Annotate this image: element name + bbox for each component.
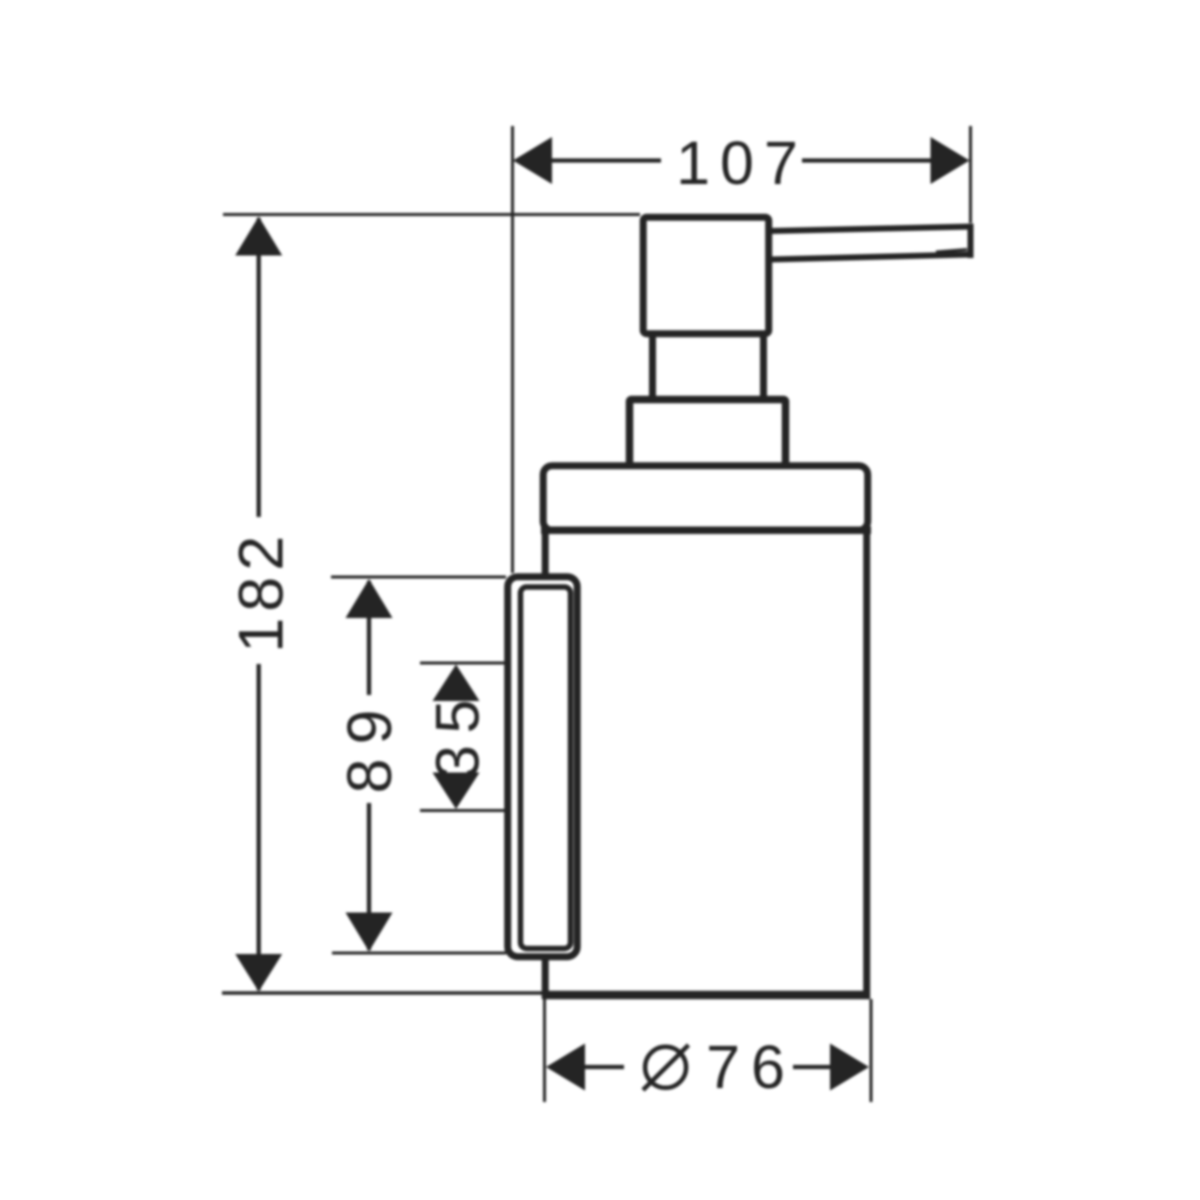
diameter symbol slash (643, 1045, 689, 1090)
dimension 35 arrow bottom (433, 773, 480, 810)
dimension 107 extension line left (511, 126, 514, 573)
dimension 182 arrow bottom (235, 954, 282, 992)
dimension 89 extension line bottom (332, 952, 506, 955)
dimension 182 extension line top (223, 213, 640, 216)
spout right cap (968, 224, 974, 258)
dimension 182 line bottom segment (257, 664, 261, 990)
spout top edge (770, 227, 974, 232)
svg-text:76: 76 (706, 1033, 796, 1101)
dimension 89 arrow bottom (346, 913, 393, 952)
dimension 107 extension line right (969, 126, 972, 223)
dimension 89 arrow top (346, 579, 393, 618)
pump head (643, 217, 769, 334)
dimension 76 extension line left (543, 999, 546, 1102)
dimension 182 line top segment (257, 218, 261, 517)
dimension 35 extension line top (420, 662, 506, 665)
svg-text:182: 182 (226, 530, 296, 653)
wall holder outer (508, 577, 578, 957)
dimension 76 line right segment (793, 1065, 831, 1069)
dimension 107 arrow right (931, 137, 970, 184)
svg-text:35: 35 (424, 688, 492, 779)
dimension 76 line left segment (584, 1065, 624, 1069)
dimension 107 line left segment (550, 158, 661, 162)
dimension 35 arrow top (433, 665, 480, 702)
dimension 89 extension line top (331, 576, 506, 579)
dimension 76 arrow right (830, 1044, 869, 1091)
spout inner tip line (936, 250, 967, 253)
pump neck (653, 330, 764, 400)
dimension 107 line right segment (802, 158, 934, 162)
bottle flange seam line (541, 526, 871, 534)
bottle body (545, 530, 867, 995)
dispenser body (508, 217, 974, 995)
dimension 182 arrow top (235, 217, 282, 256)
svg-text:89: 89 (335, 695, 405, 793)
dimension 89 line bottom segment (367, 803, 371, 950)
wall holder inner (521, 587, 571, 949)
dimension 35 extension line bottom (420, 809, 506, 812)
bottle flange (543, 466, 868, 531)
pump collar (630, 400, 786, 469)
dimension 182 extension line bottom (222, 991, 543, 995)
dimension 107 arrow left (513, 137, 552, 184)
diameter symbol circle (645, 1047, 686, 1088)
bottle bottom edge (542, 991, 870, 1000)
svg-text:107: 107 (676, 129, 808, 197)
dimension 76 arrow left (546, 1044, 585, 1091)
spout bottom edge (770, 255, 968, 260)
dimension 76 extension line right (870, 999, 873, 1102)
dimension 89 line top segment (367, 581, 371, 695)
